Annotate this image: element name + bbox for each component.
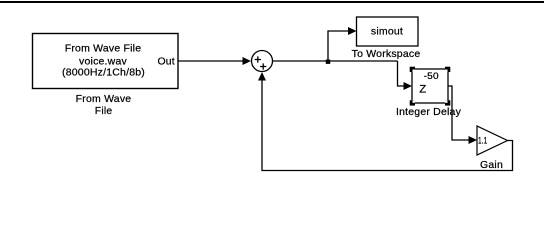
plus sign (bottom input) (260, 63, 266, 69)
wire: From Wave File Out -> sum (178, 60, 243, 62)
wire: Gain output feedback to sum bottom (262, 80, 513, 171)
arrowhead into delay (404, 82, 413, 90)
wire: Integer Delay output to Gain (448, 86, 469, 140)
svg-text:From Wave: From Wave (76, 93, 132, 105)
block From Wave File (33, 34, 179, 89)
arrowhead into simout (348, 27, 357, 35)
sum block circle (252, 51, 273, 72)
wire: down to Integer Delay (398, 61, 405, 86)
arrowhead into sum bottom (258, 72, 266, 81)
top window border line (0, 1, 544, 3)
plus sign (left input) (255, 56, 261, 62)
arrowhead into sum left (243, 57, 252, 65)
selection handle top-left (410, 67, 415, 72)
wire: branch up to simout (328, 31, 349, 61)
svg-text:voice.wav: voice.wav (79, 55, 127, 67)
selection handle top-right (445, 67, 450, 72)
wire: sum output to the right (273, 60, 398, 62)
block simout (To Workspace) (357, 17, 419, 46)
svg-text:To Workspace: To Workspace (352, 48, 421, 60)
svg-text:From Wave File: From Wave File (65, 43, 142, 55)
block Gain (triangle) (477, 126, 508, 155)
svg-text:Z: Z (419, 84, 426, 96)
svg-text:(8000Hz/1Ch/8b): (8000Hz/1Ch/8b) (62, 67, 145, 79)
svg-text:simout: simout (371, 26, 403, 38)
selection handle bottom-left (410, 100, 415, 105)
junction dot (326, 60, 330, 64)
selection handle bottom-right (445, 100, 450, 105)
svg-text:Out: Out (158, 56, 175, 68)
svg-text:File: File (95, 105, 113, 117)
block Integer Delay (412, 69, 448, 103)
arrowhead into gain (469, 136, 478, 144)
svg-text:1.1: 1.1 (478, 135, 487, 145)
svg-text:Gain: Gain (480, 159, 503, 171)
svg-text:-50: -50 (424, 71, 439, 81)
